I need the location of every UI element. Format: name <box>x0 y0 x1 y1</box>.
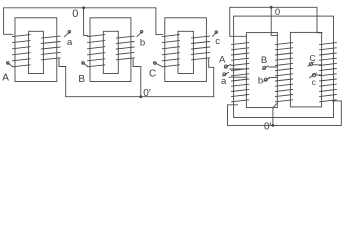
svg-text:c: c <box>215 36 220 47</box>
terminal c of T3 <box>212 31 217 37</box>
winding on limb C (right limb) <box>320 43 337 102</box>
transformer T1 core outline <box>15 18 57 82</box>
svg-text:B: B <box>261 55 267 66</box>
wire: bus 0 down to primary top of T2 <box>84 8 88 36</box>
wire: bus 0 to top of limb B winding <box>271 7 277 35</box>
wire: bus 0 to top of limb C winding <box>317 7 322 33</box>
terminal c (right diagram) <box>310 73 322 78</box>
transformer T3 core outline <box>165 18 207 82</box>
svg-text:C: C <box>149 68 156 79</box>
core window 1 (left) <box>246 33 277 108</box>
wire: secondary bottom of T3 to bus 0' <box>209 59 214 97</box>
wire: primary neutral bus 0 (left diagram) <box>4 7 156 9</box>
svg-text:A: A <box>219 55 226 66</box>
wire: bus 0' to bottom of limb C winding <box>332 101 341 126</box>
three-limb transformer core outline <box>234 16 334 117</box>
terminal C (right diagram) <box>308 62 322 66</box>
svg-text:b: b <box>140 37 145 48</box>
wire: bus 0 down to primary top of T3 <box>156 8 163 35</box>
winding on limb B (middle limb) <box>275 43 292 102</box>
svg-text:a: a <box>221 76 227 87</box>
terminal A of T1 <box>7 62 13 67</box>
terminal A (right diagram) <box>224 64 247 69</box>
wire: secondary bottom of T1 to bus 0' <box>59 59 66 97</box>
transformer T1 core window <box>29 31 44 73</box>
primary winding of T1 (left limb) <box>12 35 30 67</box>
transformer T2 core outline <box>90 18 131 82</box>
primary winding of T2 (left limb) <box>87 35 105 67</box>
wire: secondary bottom of T2 to bus 0' <box>133 59 141 97</box>
svg-text:c: c <box>312 77 317 87</box>
secondary winding of T1 (right limb) <box>41 36 60 60</box>
wire: bus 0 to top of limb A winding <box>230 7 246 36</box>
svg-text:a: a <box>67 37 73 48</box>
winding on limb A (left limb) <box>231 43 249 102</box>
junction on bus 0' (left diagram) <box>139 95 142 98</box>
svg-text:A: A <box>2 72 9 83</box>
wire: bus 0 down to primary top of T1 <box>4 8 13 35</box>
svg-text:B: B <box>78 74 85 85</box>
terminal b (right diagram) <box>264 78 278 82</box>
junction on bus 0 (left diagram) <box>82 6 85 9</box>
svg-text:0: 0 <box>72 8 78 20</box>
wire: primary neutral bus 0 (right diagram) <box>230 6 317 8</box>
transformer T2 core window <box>103 31 118 73</box>
core window 2 (right) <box>290 32 321 107</box>
terminal a of T1 <box>64 31 70 37</box>
secondary winding of T2 (right limb) <box>116 36 134 60</box>
primary winding of T3 (left limb) <box>162 35 179 67</box>
terminal C of T3 <box>153 62 162 67</box>
secondary winding of T3 (right limb) <box>191 36 209 60</box>
wire: bus 0' to bottom of limb B winding <box>273 103 277 125</box>
svg-text:C: C <box>310 53 316 63</box>
junction on bus 0 (right diagram) <box>270 6 273 9</box>
transformer T3 core window <box>178 31 193 73</box>
junction on bus 0' (right diagram) <box>272 124 275 127</box>
terminal B of T2 <box>82 62 88 67</box>
terminal a (right diagram) <box>223 72 248 77</box>
terminal b of T2 <box>137 31 143 37</box>
svg-text:0′: 0′ <box>143 88 151 99</box>
wire: secondary neutral bus 0' (right diagram) <box>228 124 342 126</box>
wire: bus 0' to bottom of limb A winding <box>228 105 238 126</box>
wire: secondary neutral bus 0' (left diagram) <box>66 96 214 98</box>
terminal B (right diagram) <box>262 66 277 70</box>
svg-text:0′: 0′ <box>264 121 272 132</box>
svg-text:b: b <box>258 76 263 87</box>
svg-text:0: 0 <box>275 7 280 18</box>
